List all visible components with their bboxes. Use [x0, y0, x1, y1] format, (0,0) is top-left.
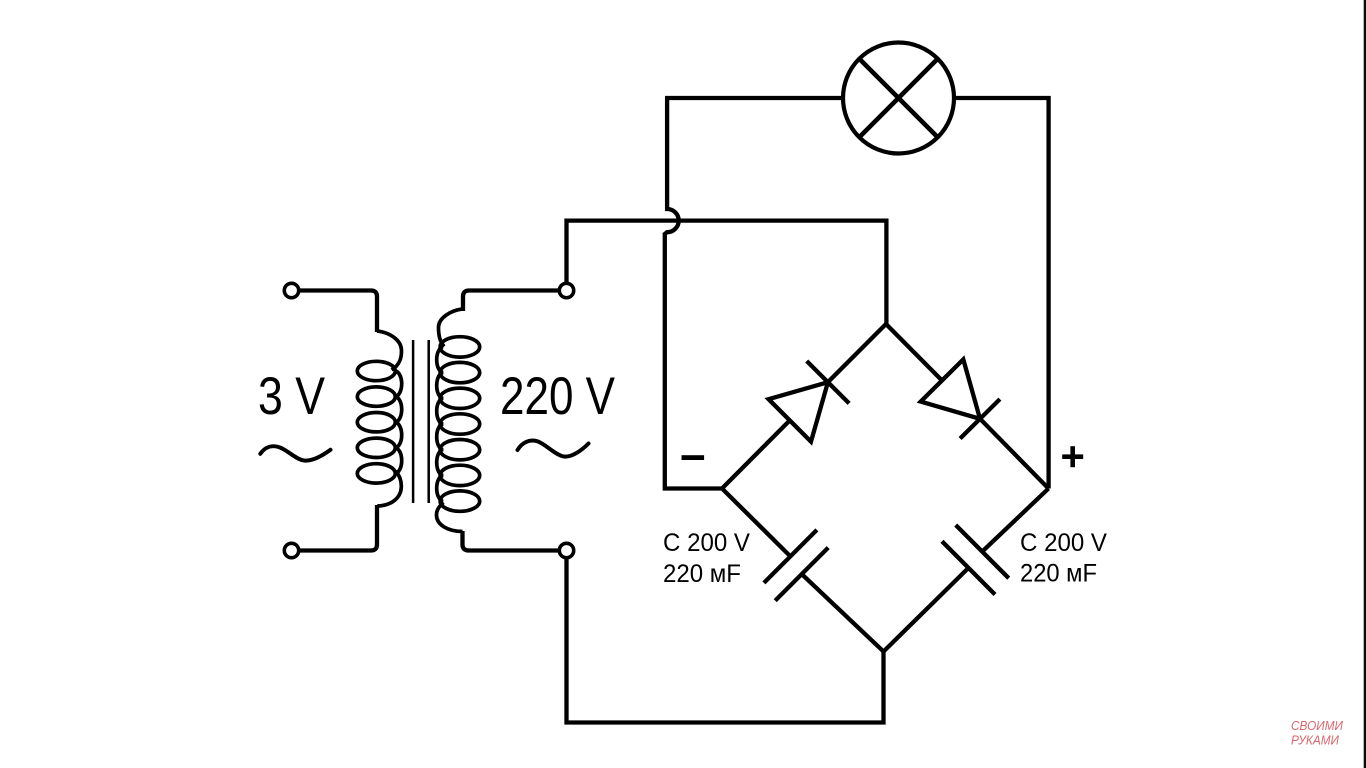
svg-text:3 V: 3 V — [258, 367, 326, 426]
svg-text:220 мF: 220 мF — [663, 560, 741, 588]
svg-text:C 200 V: C 200 V — [1020, 529, 1107, 557]
svg-text:РУКАМИ: РУКАМИ — [1291, 733, 1340, 748]
svg-text:СВОИМИ: СВОИМИ — [1291, 718, 1344, 733]
svg-text:220 V: 220 V — [500, 367, 616, 426]
svg-text:C 200 V: C 200 V — [663, 529, 750, 557]
svg-text:220 мF: 220 мF — [1020, 560, 1097, 588]
